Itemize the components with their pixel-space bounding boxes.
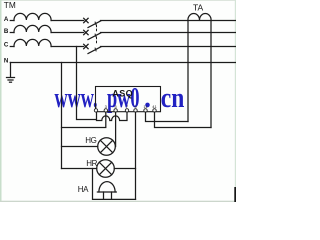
svg-text:HR: HR xyxy=(86,159,97,168)
svg-text:C: C xyxy=(4,42,9,49)
svg-text:N: N xyxy=(4,57,9,64)
svg-text:TA: TA xyxy=(193,3,204,13)
svg-text:A: A xyxy=(4,16,9,23)
svg-text:ASQ: ASQ xyxy=(112,89,133,99)
svg-text:B: B xyxy=(4,28,9,35)
svg-text:TM: TM xyxy=(4,0,16,10)
svg-text:cn: cn xyxy=(161,83,185,114)
svg-text:HA: HA xyxy=(78,185,89,194)
svg-text:41: 41 xyxy=(152,104,157,109)
svg-text:HG: HG xyxy=(85,136,96,145)
